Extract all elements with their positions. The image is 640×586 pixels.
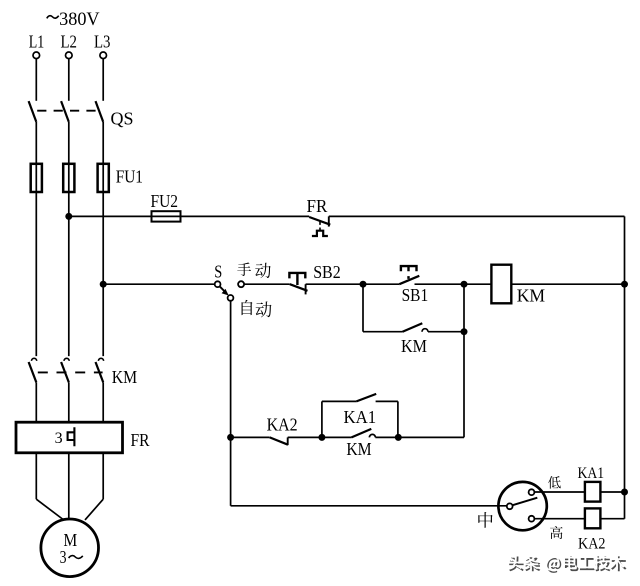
svg-text:SB2: SB2 [313, 262, 341, 282]
svg-text:KA1: KA1 [578, 465, 605, 482]
svg-text:KA2: KA2 [578, 536, 606, 553]
svg-text:FU1: FU1 [116, 167, 143, 187]
svg-text:L2: L2 [60, 32, 77, 52]
svg-text:SB1: SB1 [402, 285, 429, 305]
svg-text:S: S [214, 261, 222, 281]
svg-text:FU2: FU2 [151, 191, 179, 211]
svg-text:3: 3 [60, 547, 67, 567]
svg-text:KA1: KA1 [344, 407, 377, 427]
svg-text:FR: FR [131, 430, 150, 450]
svg-text:KA2: KA2 [267, 415, 298, 435]
svg-text:L1: L1 [29, 32, 45, 52]
svg-text:KM: KM [112, 367, 137, 387]
svg-text:3: 3 [55, 430, 63, 447]
svg-text:KM: KM [401, 336, 427, 356]
svg-text:QS: QS [111, 108, 134, 128]
svg-text:L3: L3 [94, 32, 111, 52]
svg-text:KM: KM [346, 439, 371, 459]
svg-text:KM: KM [517, 285, 545, 305]
svg-text:380V: 380V [59, 9, 100, 30]
svg-text:FR: FR [307, 196, 328, 216]
